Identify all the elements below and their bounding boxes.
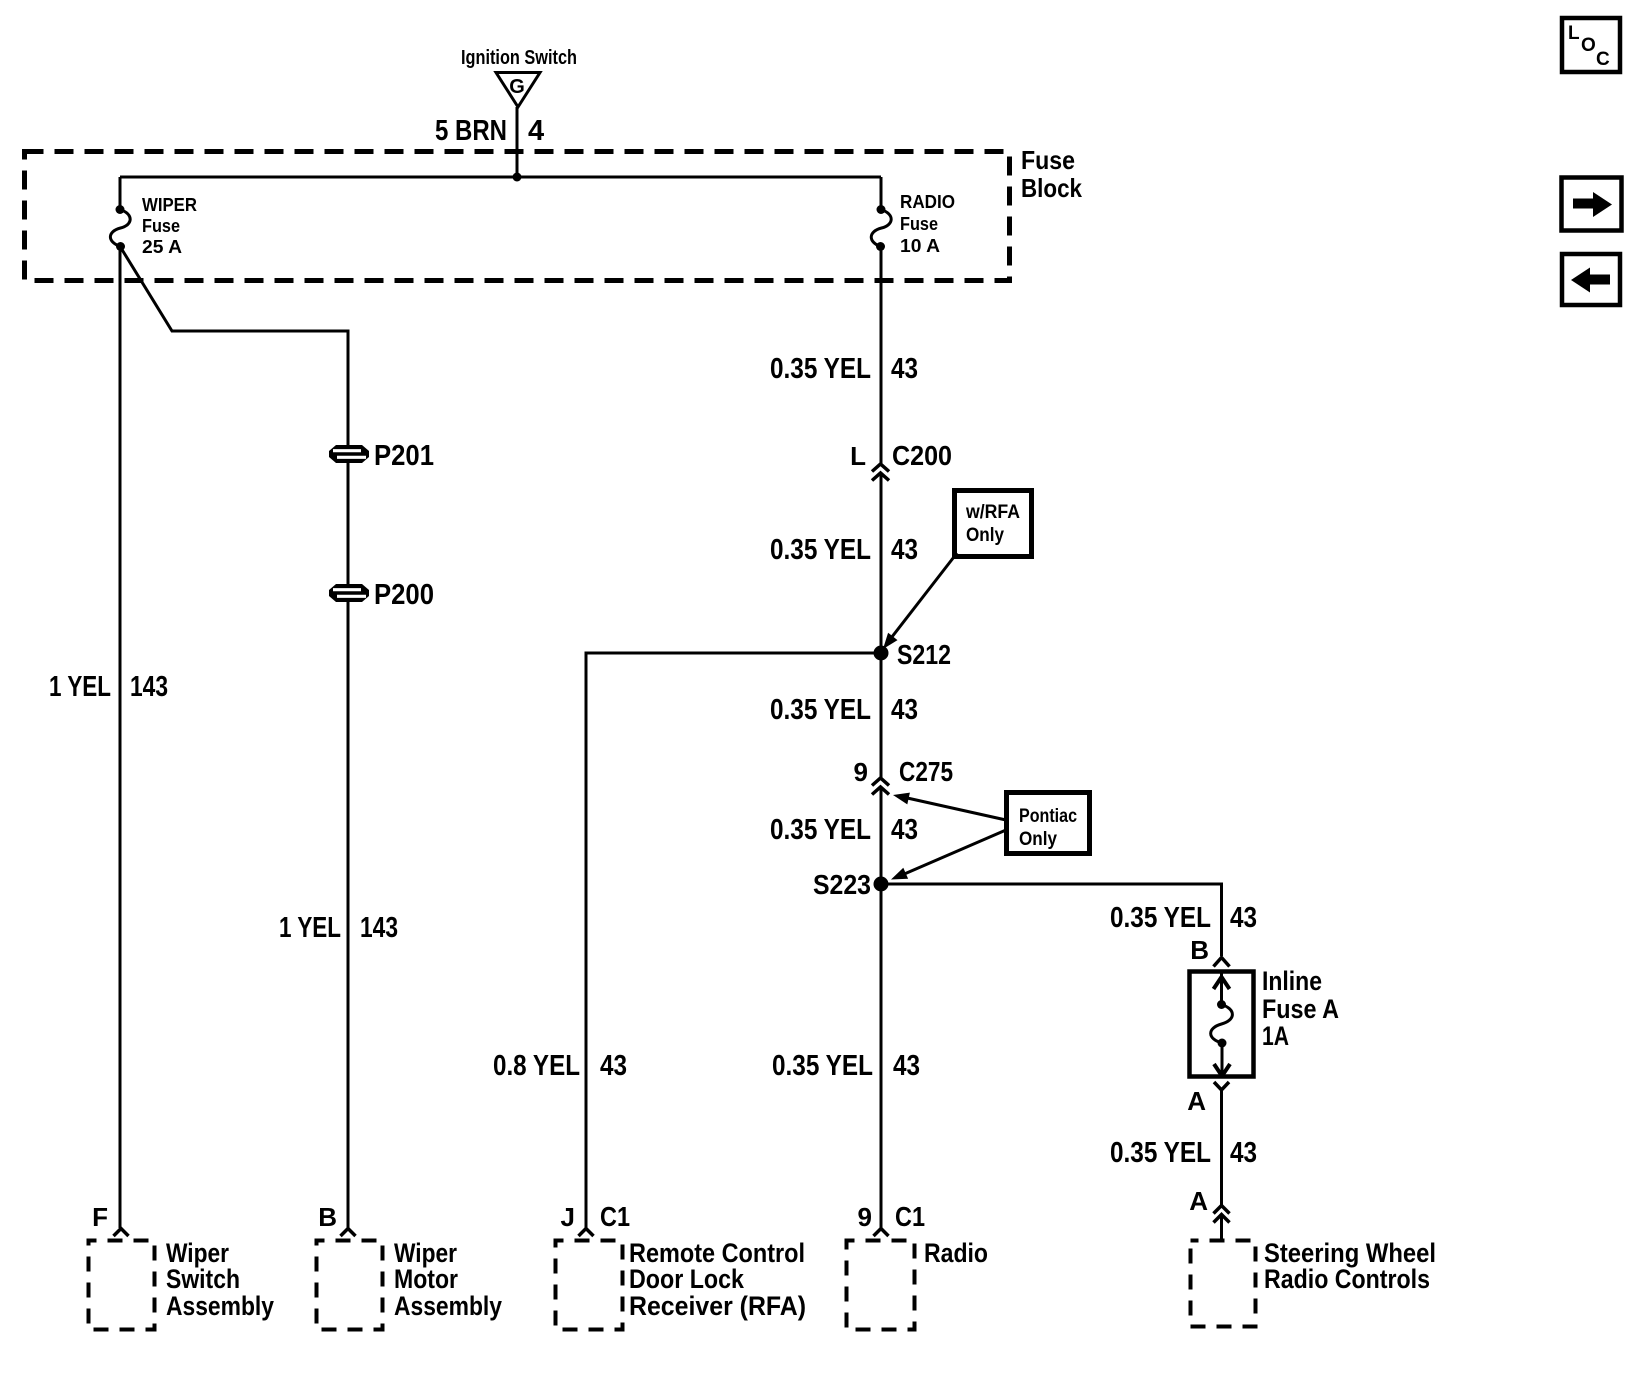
svg-text:C1: C1 [600, 1201, 630, 1232]
svg-text:9: 9 [858, 1202, 872, 1232]
svg-text:Switch: Switch [166, 1264, 240, 1294]
pin chevron 9 [874, 1229, 889, 1237]
page-forward icon [1562, 178, 1622, 231]
component box wiper motor assembly [317, 1238, 503, 1330]
wire C275 to S223 [880, 788, 883, 885]
inline fuse A box [1190, 972, 1254, 1077]
svg-text:Fuse: Fuse [142, 216, 180, 236]
fuse WIPER 25 A [110, 195, 197, 257]
svg-text:Fuse: Fuse [900, 214, 938, 234]
junction dot ignition feed [513, 173, 522, 182]
svg-text:143: 143 [360, 912, 398, 944]
svg-text:43: 43 [891, 534, 918, 566]
component box remote control door lock receiver [556, 1238, 807, 1330]
svg-text:G: G [509, 76, 525, 98]
svg-text:43: 43 [1230, 1137, 1257, 1169]
callout box Pontiac Only [1007, 793, 1090, 854]
svg-text:J: J [561, 1202, 575, 1232]
svg-text:S223: S223 [813, 869, 871, 900]
svg-text:A: A [1187, 1086, 1206, 1116]
svg-text:4: 4 [528, 115, 544, 147]
svg-text:C200: C200 [892, 440, 952, 471]
svg-text:43: 43 [891, 353, 918, 385]
svg-text:1 YEL: 1 YEL [49, 671, 111, 703]
bus wire inside fuse block [120, 176, 881, 179]
svg-text:w/RFA: w/RFA [965, 502, 1020, 523]
svg-text:O: O [1581, 35, 1596, 56]
svg-text:10 A: 10 A [900, 236, 940, 256]
component box wiper switch assembly [89, 1238, 275, 1330]
svg-text:Only: Only [1019, 829, 1057, 850]
splice sleeve P200 [329, 584, 369, 602]
connector C275 [872, 778, 889, 795]
wire C200 to S212 [880, 474, 883, 654]
svg-text:0.35 YEL: 0.35 YEL [770, 353, 871, 385]
fuse RADIO 10 A [871, 192, 955, 256]
page-back icon [1562, 254, 1620, 305]
svg-text:1 YEL: 1 YEL [279, 912, 341, 944]
svg-text:Pontiac: Pontiac [1019, 806, 1077, 827]
svg-text:0.8 YEL: 0.8 YEL [493, 1050, 580, 1082]
wire inline fuse to steering wheel controls [1220, 1090, 1223, 1205]
wire steering connector stub [1220, 1215, 1223, 1240]
svg-text:Only: Only [966, 525, 1004, 546]
svg-text:43: 43 [600, 1050, 627, 1082]
loc icon [1562, 18, 1620, 72]
connector at steering wheel controls [1214, 1206, 1230, 1223]
ignition switch symbol G [496, 73, 540, 108]
svg-text:F: F [92, 1202, 108, 1232]
svg-text:0.35 YEL: 0.35 YEL [1110, 902, 1211, 934]
wire S212 branch to RFA receiver [586, 653, 881, 1228]
svg-text:0.35 YEL: 0.35 YEL [770, 534, 871, 566]
svg-text:Radio Controls: Radio Controls [1264, 1264, 1430, 1294]
svg-text:43: 43 [891, 814, 918, 846]
svg-text:Fuse A: Fuse A [1262, 994, 1339, 1024]
pin chevron F [114, 1229, 129, 1237]
wiper fuse lead [119, 177, 122, 209]
svg-text:Assembly: Assembly [394, 1291, 502, 1321]
svg-text:43: 43 [1230, 902, 1257, 934]
wire S223 branch to inline fuse [881, 884, 1222, 956]
svg-text:P200: P200 [374, 579, 434, 611]
wire S212 to C275 [880, 653, 883, 778]
arrow Pontiac callout to C275 [893, 793, 1006, 820]
svg-text:WIPER: WIPER [142, 195, 197, 215]
svg-text:L: L [850, 441, 866, 471]
wire S223 to radio [880, 884, 883, 1228]
svg-text:S212: S212 [897, 639, 951, 670]
inline fuse element [1211, 973, 1233, 1076]
pin chevron J [579, 1229, 594, 1237]
svg-text:Door Lock: Door Lock [629, 1264, 745, 1294]
connector C200 [872, 464, 889, 481]
svg-text:1A: 1A [1262, 1021, 1289, 1051]
svg-text:Assembly: Assembly [166, 1291, 274, 1321]
connector V below inline fuse [1214, 1082, 1229, 1090]
svg-text:Block: Block [1021, 173, 1082, 203]
svg-text:Receiver (RFA): Receiver (RFA) [629, 1291, 806, 1321]
svg-text:L: L [1568, 23, 1580, 44]
svg-text:P201: P201 [374, 440, 434, 472]
junction S212 [874, 646, 889, 661]
svg-text:B: B [318, 1202, 337, 1232]
pin chevron B [341, 1229, 356, 1237]
svg-text:C275: C275 [899, 756, 953, 787]
arrow w/RFA callout to S212 [883, 553, 957, 649]
svg-text:9: 9 [854, 757, 868, 787]
svg-text:43: 43 [893, 1050, 920, 1082]
splice sleeve P201 [329, 445, 369, 463]
svg-text:0.35 YEL: 0.35 YEL [770, 694, 871, 726]
component box steering wheel radio controls [1191, 1238, 1437, 1327]
svg-text:Radio: Radio [924, 1238, 988, 1268]
fuse block dashed border [25, 152, 1010, 281]
svg-text:0.35 YEL: 0.35 YEL [772, 1050, 873, 1082]
svg-text:A: A [1189, 1186, 1208, 1216]
svg-text:Motor: Motor [394, 1264, 458, 1294]
connector chevron above inline fuse [1214, 958, 1230, 967]
label Inline Fuse A 1A [1262, 966, 1339, 1051]
svg-text:Ignition Switch: Ignition Switch [461, 47, 577, 69]
callout box w/RFA Only [955, 491, 1032, 557]
svg-text:25 A: 25 A [142, 237, 182, 257]
svg-text:C1: C1 [895, 1201, 925, 1232]
wire ignition switch to fuse block bus [516, 107, 519, 177]
wire wiper fuse to wiper switch assembly [119, 247, 122, 1229]
svg-text:C: C [1596, 49, 1610, 70]
svg-text:0.35 YEL: 0.35 YEL [770, 814, 871, 846]
svg-text:RADIO: RADIO [900, 192, 955, 212]
svg-text:0.35 YEL: 0.35 YEL [1110, 1137, 1211, 1169]
svg-text:143: 143 [130, 671, 168, 703]
svg-text:Fuse: Fuse [1021, 145, 1075, 175]
component box radio [847, 1238, 989, 1330]
wire radio fuse to C200 [880, 247, 883, 465]
svg-text:43: 43 [891, 694, 918, 726]
svg-text:Inline: Inline [1262, 966, 1322, 996]
wire wiper fuse branch to wiper motor [121, 248, 348, 1228]
junction S223 [874, 877, 889, 892]
svg-text:5 BRN: 5 BRN [435, 115, 507, 147]
radio fuse lead [880, 177, 883, 209]
svg-text:B: B [1190, 935, 1209, 965]
arrow Pontiac callout to S223 [891, 830, 1006, 880]
